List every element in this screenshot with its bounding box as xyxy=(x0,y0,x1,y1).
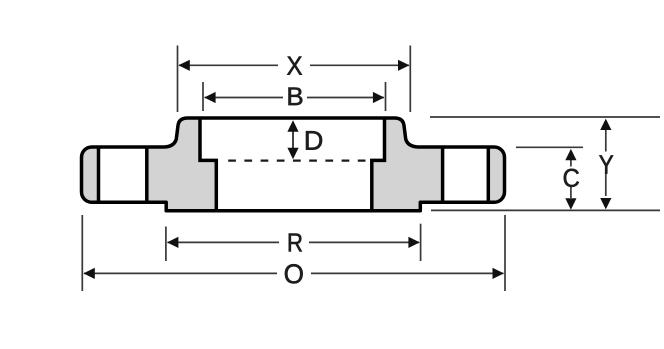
dimension D arrow line xyxy=(292,128,294,152)
C top extension line xyxy=(516,146,583,148)
dimension O extension line right xyxy=(504,215,506,291)
Y dimension line segments xyxy=(605,130,607,152)
C dimension line segments xyxy=(570,160,572,167)
dimension X extension line left xyxy=(177,46,179,113)
socket + bore cavity (white) xyxy=(200,117,385,211)
label O xyxy=(285,264,303,283)
pipe section right (white) xyxy=(443,146,489,204)
dashed socket-depth line xyxy=(228,160,365,162)
pipe section left (white) xyxy=(99,146,147,204)
dimension R extension line left xyxy=(165,227,167,262)
weld-end divider left inner xyxy=(145,147,149,202)
bottom extension line (C/Y) xyxy=(431,209,660,211)
label D xyxy=(306,131,322,150)
label Y xyxy=(599,155,613,173)
socket/bore profile right xyxy=(372,118,385,211)
weld-end divider left outer xyxy=(97,147,101,202)
X arrow left xyxy=(178,60,189,71)
D arrow down xyxy=(287,148,298,159)
dimension R line xyxy=(168,241,280,243)
flange outline stroke xyxy=(82,118,505,211)
dimension X extension line right xyxy=(409,46,411,113)
weld-end divider right inner xyxy=(441,147,445,202)
X arrow right xyxy=(398,60,409,71)
label X xyxy=(287,57,302,75)
O arrow left xyxy=(83,268,94,279)
B arrow left xyxy=(204,92,215,103)
dimension R extension line right xyxy=(420,224,422,261)
Y top extension line xyxy=(430,116,660,118)
dimension B line xyxy=(205,97,283,99)
B arrow right xyxy=(373,92,384,103)
C arrow down xyxy=(565,198,576,209)
dimension O extension line left xyxy=(81,215,83,291)
label C xyxy=(564,169,579,187)
dimension O line xyxy=(84,272,277,274)
dimension B extension line left xyxy=(202,82,204,111)
R arrow left xyxy=(167,237,178,248)
socket/bore profile left xyxy=(200,118,216,211)
dimension X line xyxy=(179,64,278,66)
Y arrow down xyxy=(600,198,611,209)
O arrow right xyxy=(493,268,504,279)
Y arrow up xyxy=(600,119,611,130)
label R xyxy=(289,234,302,252)
dimension B extension line right xyxy=(385,82,387,111)
C arrow up xyxy=(565,149,576,160)
flange body (socket weld flange cross-section), gray fill xyxy=(82,118,505,211)
R arrow right xyxy=(408,237,419,248)
weld-end divider right outer xyxy=(487,147,491,202)
label B xyxy=(289,88,303,106)
D arrow up xyxy=(287,120,298,131)
